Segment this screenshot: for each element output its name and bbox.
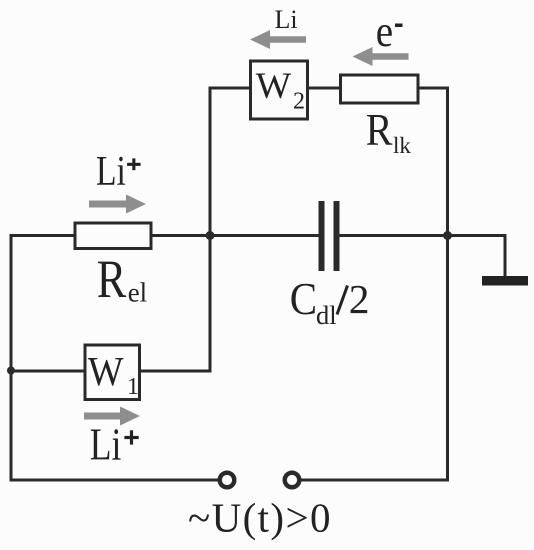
svg-text:Li: Li xyxy=(96,148,126,194)
arrow Li+ right (above Rel) xyxy=(89,195,146,214)
svg-text:C: C xyxy=(290,275,317,324)
wire: right vertical xyxy=(446,87,449,482)
svg-text:1: 1 xyxy=(127,374,139,400)
wire: ground stem vertical xyxy=(504,234,507,278)
svg-text:Li: Li xyxy=(90,420,122,470)
node B: junction middle wire / inner vertical xyxy=(206,231,215,240)
svg-text:e: e xyxy=(376,8,393,57)
wire: top branch between W2 and Rlk xyxy=(308,87,341,90)
svg-text:R: R xyxy=(366,105,393,155)
ground xyxy=(482,276,528,286)
wire: W1 branch right xyxy=(140,370,212,373)
wire: inner vertical at x=210 xyxy=(209,87,212,373)
switch terminal right xyxy=(285,473,300,488)
capacitor Cdl/2 right plate xyxy=(334,201,340,271)
warburg element W2 xyxy=(251,61,308,119)
svg-text:lk: lk xyxy=(393,133,411,158)
wire: top branch left segment xyxy=(209,87,251,90)
svg-text:Li: Li xyxy=(275,5,298,34)
wire: middle horizontal right of capacitor to ground stem xyxy=(339,234,505,237)
svg-text:W: W xyxy=(88,348,124,394)
arrow e- left (above Rlk) xyxy=(353,47,409,66)
capacitor Cdl/2 left plate xyxy=(319,201,325,271)
arrow Li left (above W2) xyxy=(250,30,306,49)
svg-text:W: W xyxy=(256,66,292,107)
wire: left vertical xyxy=(10,234,13,482)
wire: bottom right horizontal xyxy=(301,479,449,482)
resistor Rlk xyxy=(341,75,419,103)
wire: W1 branch left xyxy=(10,370,86,373)
switch terminal left xyxy=(220,473,235,488)
node C: junction middle wire / right vertical xyxy=(443,231,452,240)
resistor Rel xyxy=(75,223,151,249)
svg-text:2: 2 xyxy=(349,276,370,322)
svg-text:~U(t)>0: ~U(t)>0 xyxy=(188,495,332,541)
svg-text:dl: dl xyxy=(316,300,337,330)
node A: junction left vertical / W1 branch xyxy=(7,367,15,375)
svg-text:2: 2 xyxy=(293,89,305,115)
arrow Li+ right (below W1) xyxy=(84,407,140,426)
wire: top branch right segment xyxy=(418,87,449,90)
svg-text:el: el xyxy=(128,278,148,308)
wire: bottom left horizontal xyxy=(10,479,219,482)
warburg element W1 xyxy=(85,345,140,400)
svg-text:R: R xyxy=(97,249,127,309)
wire: middle horizontal left of capacitor xyxy=(10,234,320,237)
